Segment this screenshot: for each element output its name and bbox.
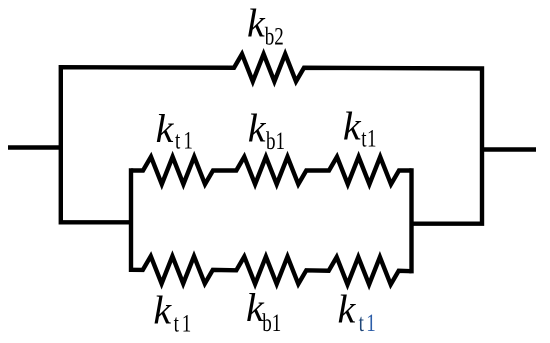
left terminal lead [8,145,61,149]
svg-text:k: k [156,106,175,151]
inner right vertical wire [409,168,413,273]
middle branch: springs kt1, kb1, kt1 in series [131,157,412,184]
svg-text:t: t [359,309,365,337]
svg-text:1: 1 [182,309,191,337]
svg-text:k: k [153,288,172,333]
right terminal lead [482,147,536,151]
svg-text:1: 1 [183,126,192,154]
inner left vertical wire [129,168,133,272]
svg-text:b1: b1 [266,127,285,155]
svg-text:t: t [175,126,181,154]
svg-text:k: k [338,287,357,332]
svg-text:k: k [247,1,266,46]
svg-text:1: 1 [367,124,376,152]
bottom branch: springs kt1, kb1, kt1 in series [131,256,412,284]
svg-text:k: k [248,105,267,150]
svg-text:b1: b1 [262,308,281,336]
svg-text:1: 1 [366,309,375,337]
svg-text:k: k [343,104,362,149]
outer loop wire: left vertical, top branch with spring kb2, right vertical [61,54,482,224]
svg-text:t: t [174,309,180,337]
svg-text:b2: b2 [265,22,284,50]
